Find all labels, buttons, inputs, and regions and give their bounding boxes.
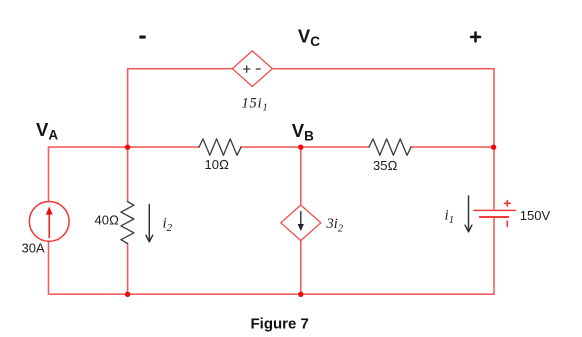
wire top-right riser: [493, 69, 495, 147]
current source 30A arrow: [46, 207, 53, 238]
node junction dot bottom left: [125, 292, 130, 297]
dependent source polarity text: [244, 66, 261, 72]
dependent current source 3i2 diamond: [281, 205, 321, 241]
wire middle left segment: [49, 146, 200, 148]
polarity plus top-right: [471, 33, 480, 42]
node junction dot VB: [298, 145, 303, 150]
wire 40-ohm branch upper: [127, 147, 129, 201]
current arrow i1: [465, 196, 472, 232]
resistor 10ohm zigzag: [199, 139, 241, 155]
current arrow i2: [146, 205, 153, 242]
battery minus mark: [506, 221, 508, 226]
battery 150V long plate: [474, 209, 516, 211]
svg-text:VB: VB: [292, 120, 314, 144]
wire VB branch upper: [300, 147, 302, 205]
wire middle center segment: [241, 146, 369, 148]
svg-text:i1: i1: [445, 208, 455, 227]
resistor 35ohm zigzag: [369, 139, 411, 155]
polarity minus top-left: [139, 36, 145, 39]
wire left branch lower: [48, 241, 50, 294]
svg-text:3i2: 3i2: [326, 216, 344, 235]
svg-text:30A: 30A: [22, 241, 45, 256]
node junction dot right row: [491, 145, 496, 150]
node junction dot VA-row left: [125, 145, 130, 150]
svg-text:10Ω: 10Ω: [205, 157, 229, 172]
svg-text:i2: i2: [163, 216, 173, 235]
wire left branch upper: [48, 147, 50, 201]
svg-text:35Ω: 35Ω: [373, 158, 397, 173]
wire top left segment: [128, 68, 233, 70]
svg-text:VC: VC: [298, 25, 320, 49]
battery plus mark: [505, 201, 510, 206]
current source I1 30A circle: [29, 202, 69, 242]
wire 40-ohm branch lower: [127, 244, 129, 295]
node junction dot bottom middle: [298, 292, 303, 297]
wire top right segment: [272, 68, 494, 70]
wire middle right segment: [411, 146, 494, 148]
battery 150V short plate: [480, 216, 509, 218]
wire bottom segment: [49, 293, 495, 295]
svg-text:40Ω: 40Ω: [95, 213, 119, 228]
dependent current source arrow: [298, 212, 304, 232]
resistor 40ohm zigzag: [121, 202, 134, 244]
svg-text:15i1: 15i1: [242, 96, 269, 114]
svg-text:VA: VA: [36, 119, 58, 143]
wire top-left riser: [127, 69, 129, 147]
wire right branch upper: [493, 147, 495, 210]
wire VB branch lower: [300, 241, 302, 295]
svg-text:Figure 7: Figure 7: [251, 316, 309, 333]
svg-text:150V: 150V: [520, 208, 551, 223]
dependent voltage source 15i1 diamond: [232, 51, 272, 87]
wire right branch lower: [493, 217, 495, 294]
